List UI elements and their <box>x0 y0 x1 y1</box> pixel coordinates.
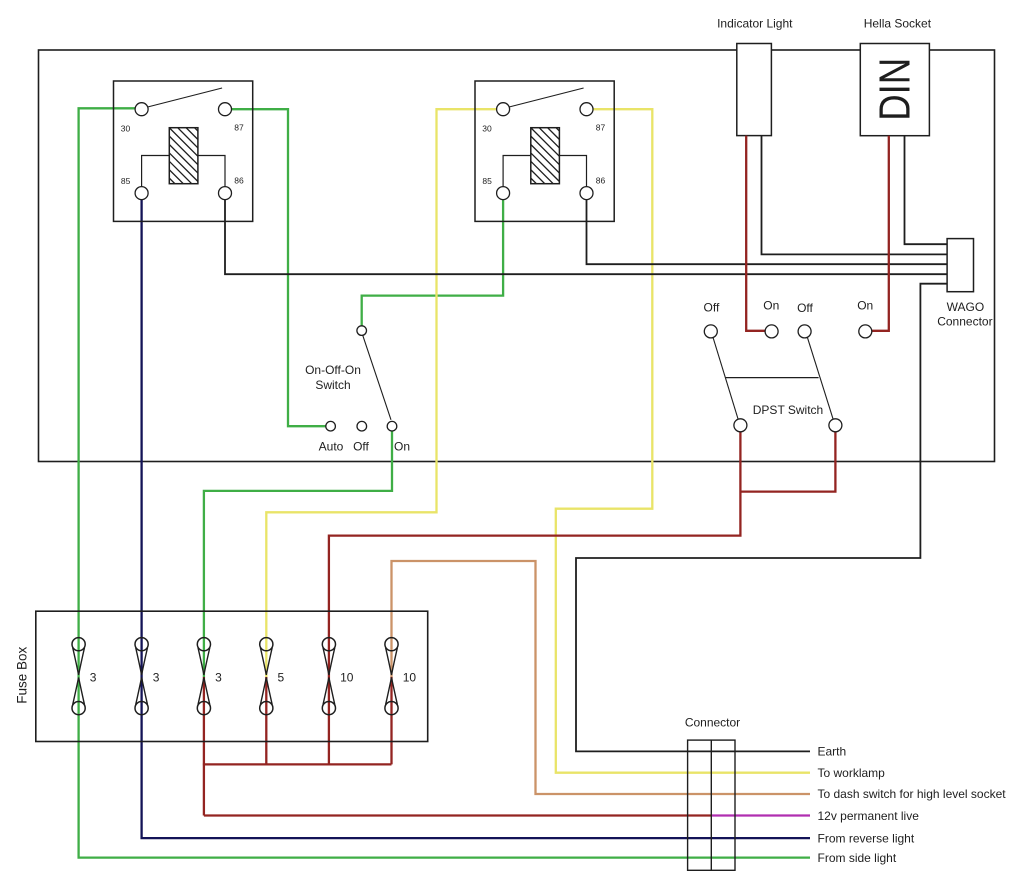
relay K2 terminal 87 <box>580 103 593 116</box>
svg-text:Off: Off <box>353 440 369 454</box>
fuse F4 (5A) <box>260 638 273 651</box>
svg-text:Connector: Connector <box>937 315 992 329</box>
svg-text:30: 30 <box>482 123 492 133</box>
indicator light box <box>737 44 772 136</box>
svg-text:From side light: From side light <box>818 851 897 865</box>
svg-text:To dash switch for high level: To dash switch for high level socket <box>818 787 1007 801</box>
wire black: WAGO connector to Earth at connector <box>576 284 947 752</box>
DPST switch arm 1 <box>713 337 738 420</box>
wire orange: fuse F6 to dash switch for high level socket <box>392 561 811 794</box>
svg-text:Indicator Light: Indicator Light <box>717 16 793 30</box>
svg-text:Off: Off <box>704 301 720 315</box>
wire red: fuse F4 output to bus <box>265 677 267 764</box>
connector divider <box>710 740 712 870</box>
svg-text:Earth: Earth <box>818 745 847 759</box>
wire red: DPST pole 2 to junction with pole 1 feed <box>740 432 835 492</box>
relay K2 coil lead to pin 85 <box>503 156 531 187</box>
svg-text:Off: Off <box>797 301 813 315</box>
svg-text:On: On <box>857 298 873 312</box>
relay K1 terminal 85 <box>135 187 148 200</box>
WAGO connector box <box>947 239 973 292</box>
wire red: indicator light to DPST switch On terminal 1 <box>746 136 765 331</box>
relay K2 coil lead to pin 86 <box>559 156 586 187</box>
svg-text:12v permanent live: 12v permanent live <box>818 809 920 823</box>
relay K1 body <box>114 81 253 221</box>
connector box <box>688 740 735 870</box>
svg-text:Fuse Box: Fuse Box <box>14 646 29 703</box>
svg-text:To worklamp: To worklamp <box>818 766 886 780</box>
svg-text:3: 3 <box>153 670 160 684</box>
svg-text:86: 86 <box>234 176 244 186</box>
relay K1 switch arm <box>148 88 223 107</box>
wire black: Hella socket to WAGO connector <box>905 136 948 245</box>
on-off-on switch On terminal <box>387 421 397 431</box>
DPST pole 2 terminal <box>829 419 842 432</box>
DPST switch arm 2 <box>807 337 833 420</box>
wire yellow: relay K2 pin 87 to worklamp connector <box>556 109 810 773</box>
svg-text:Switch: Switch <box>315 378 350 392</box>
wire red: DPST pole 1 to fuse F5 <box>329 432 741 765</box>
svg-text:5: 5 <box>278 670 285 684</box>
svg-text:DPST Switch: DPST Switch <box>753 403 823 417</box>
svg-text:WAGO: WAGO <box>947 300 985 314</box>
fuse F3 (3A) <box>197 638 210 651</box>
relay K2 terminal 86 <box>580 187 593 200</box>
svg-text:From reverse light: From reverse light <box>818 832 915 846</box>
relay K2 terminal 85 <box>497 187 510 200</box>
svg-text:3: 3 <box>215 670 222 684</box>
svg-text:Auto: Auto <box>319 440 344 454</box>
DPST terminal Off 2 <box>798 325 811 338</box>
svg-text:85: 85 <box>482 176 492 186</box>
svg-text:87: 87 <box>596 123 606 133</box>
DPST terminal Off 1 <box>704 325 717 338</box>
svg-text:10: 10 <box>340 670 354 684</box>
wire black: relay K1 pin 86 to WAGO connector <box>225 200 947 275</box>
wire red: 12v permanent live run to connector <box>204 814 711 816</box>
wire green: On-Off-On switch On terminal to fuse F3 <box>204 431 392 677</box>
Hella socket box (DIN) <box>860 44 929 136</box>
relay K1 terminal 87 <box>219 103 232 116</box>
DPST pole 1 terminal <box>734 419 747 432</box>
wire green: relay K2 pin 85 to On-Off-On switch common terminal <box>362 200 503 326</box>
DPST terminal On 1 <box>765 325 778 338</box>
svg-text:DIN: DIN <box>870 58 919 121</box>
svg-text:Hella Socket: Hella Socket <box>864 17 932 31</box>
wire red: fuse output bus <box>203 763 392 765</box>
relay K2 terminal 30 <box>497 103 510 116</box>
wire red: fuse F6 output to bus <box>390 677 392 764</box>
wire yellow: fuse F4 to relay K2 pin 30 <box>266 109 496 677</box>
wire green: from side light via fuse F1 to relay K1 pin 30 <box>79 108 810 857</box>
svg-text:85: 85 <box>121 176 131 186</box>
svg-text:Connector: Connector <box>685 715 740 729</box>
wire blue: relay K1 pin 85 via fuse F2 to reverse light <box>142 200 810 839</box>
svg-text:3: 3 <box>90 670 97 684</box>
wire green: relay K1 pin 87 to On-Off-On switch Auto terminal <box>232 109 327 426</box>
relay K2 body <box>475 81 614 221</box>
fuse F6 (10A) <box>385 638 398 651</box>
wire red: fuse F3 output to 12v permanent live feed <box>203 677 205 816</box>
relay K1 coil lead to pin 86 <box>198 156 225 187</box>
on-off-on switch common terminal <box>357 326 367 336</box>
relay K1 terminal 30 <box>135 103 148 116</box>
wire red: Hella socket to DPST switch On terminal 2 <box>872 136 889 331</box>
svg-text:87: 87 <box>234 123 244 133</box>
wire black: indicator light to WAGO connector <box>762 136 948 255</box>
svg-text:On: On <box>394 440 410 454</box>
relay K1 terminal 86 <box>219 187 232 200</box>
on-off-on switch Auto terminal <box>326 421 336 431</box>
on-off-on switch arm <box>363 335 391 420</box>
fuse box body <box>36 611 428 741</box>
wire black: relay K2 pin 86 to WAGO connector <box>587 200 948 265</box>
DPST switch link bar <box>726 377 819 379</box>
DPST terminal On 2 <box>859 325 872 338</box>
on-off-on switch Off terminal <box>357 421 367 431</box>
svg-text:30: 30 <box>121 123 131 133</box>
relay K2 switch arm <box>509 88 583 107</box>
main enclosure border <box>39 50 995 462</box>
svg-text:86: 86 <box>596 176 606 186</box>
svg-text:10: 10 <box>403 670 417 684</box>
svg-text:On: On <box>763 298 779 312</box>
relay K1 coil lead to pin 85 <box>142 156 170 187</box>
fuse F5 (10A) <box>322 638 335 651</box>
wire purple: 12v permanent live tail at connector <box>711 814 810 816</box>
fuse F1 (3A) <box>72 638 85 651</box>
svg-text:On-Off-On: On-Off-On <box>305 363 361 377</box>
fuse F2 (3A) <box>135 638 148 651</box>
